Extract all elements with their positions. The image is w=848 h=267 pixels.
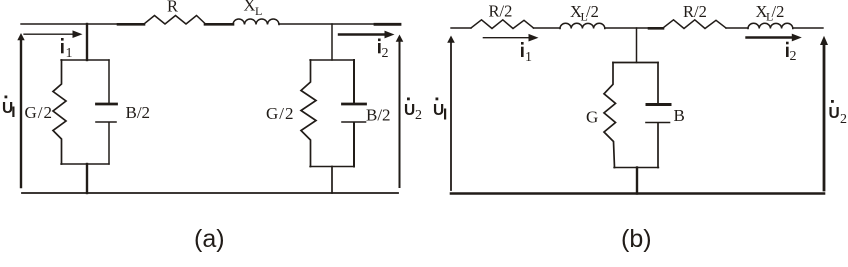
svg-text:R: R [167,0,178,16]
inductor XL/2 (second series, circuit b) [748,23,793,28]
svg-text:U: U [433,102,444,119]
label I1 (current, circuit a) [61,43,64,53]
svg-text:X: X [244,0,256,14]
svg-text:2: 2 [382,46,389,61]
inductor XL (series, circuit a) [233,19,279,25]
svg-text:2: 2 [790,49,797,64]
svg-text:G/2: G/2 [25,103,54,122]
arrow I2 (current arrow, circuit b) [747,36,795,38]
node A: (a) left shunt junction stem [86,24,88,60]
wire: (a) top wire thick segment before R [118,23,144,26]
wire: (b) middle segment [605,27,649,29]
svg-text:2: 2 [415,108,422,123]
svg-text:R/2: R/2 [683,2,707,21]
svg-text:(b): (b) [621,225,652,253]
wire: (b) thick segment before second R/2 [649,27,663,30]
svg-text:2: 2 [840,112,847,127]
resistor G (shunt, circuit b) [604,63,616,168]
wire: (b) shunt box bottom [614,167,659,169]
wire: (b) shunt bottom stem to ground rail [636,168,638,194]
svg-text:B/2: B/2 [366,106,391,125]
wire: (b) segment between second R/2 and XL/2 [726,27,748,29]
svg-text:1: 1 [66,46,73,61]
capacitor B/2 (left shunt, circuit a) [108,60,110,103]
arrow U2 (voltage arrow, circuit b) [823,44,826,190]
wire: (b) shunt box top [613,62,658,64]
svg-text:U: U [829,105,840,122]
arrow I1 (current arrow, circuit b) [483,37,531,39]
wire: (b) segment between R/2 and XL/2 [534,27,561,29]
label I2 (current, circuit b) [786,47,789,57]
svg-text:U: U [2,100,13,117]
svg-text:L: L [255,4,262,18]
wire: (a) right shunt box top [310,59,354,61]
resistor R/2 (first series, circuit b) [471,20,534,29]
svg-text:/2: /2 [772,2,785,21]
wire: (a) bottom rail [22,192,398,194]
node C: (b) middle shunt junction stem [636,28,638,63]
wire: (a) right shunt bottom stem to ground rail [331,167,333,194]
wire: (a) top wire thick end segment [375,23,400,26]
svg-text:B/2: B/2 [126,103,151,122]
capacitor B/2 (right shunt, circuit a) [353,60,355,103]
wire: (a) right shunt box bottom [310,166,354,168]
label I2 (current, circuit a) [378,43,381,53]
wire: (b) top wire left segment [451,27,471,29]
resistor R (series, circuit a) [144,16,205,25]
arrow U2 (voltage arrow, circuit a) [399,41,401,187]
wire: (a) left shunt box bottom [61,163,109,165]
svg-text:(a): (a) [194,225,225,253]
svg-text:R/2: R/2 [489,2,513,21]
arrow I2 (current arrow, circuit a) [339,33,386,35]
svg-text:G/2: G/2 [266,104,295,123]
svg-text:1: 1 [525,50,532,65]
resistor G/2 (right shunt, circuit a) [301,60,316,167]
arrow U1 (voltage arrow, circuit b) [450,42,452,190]
svg-text:U: U [404,102,415,119]
inductor XL/2 (first series, circuit b) [560,23,605,28]
arrow U1 (voltage arrow, circuit a) [20,39,22,187]
svg-text:/2: /2 [586,2,599,21]
wire: (a) top wire thin segment after XL [279,23,375,25]
wire: (a) left shunt bottom stem to ground rail [86,164,88,193]
label I1 (current, circuit b) [521,47,524,57]
svg-text:B: B [674,106,685,125]
node B: (a) right shunt junction stem [331,24,333,60]
svg-text:G: G [586,108,598,127]
arrow I1 (current arrow, circuit a) [24,33,76,35]
wire: (a) left shunt box top [61,59,109,61]
wire: (b) top wire right segment [793,27,823,29]
capacitor B (shunt, circuit b) [657,63,659,104]
wire: (b) bottom rail [451,192,824,195]
wire: (a) thick segment between R and XL [205,23,233,26]
wire: (a) top wire thin segment left [21,23,118,25]
resistor R/2 (second series, circuit b) [663,20,726,29]
resistor G/2 (left shunt, circuit a) [53,60,66,164]
